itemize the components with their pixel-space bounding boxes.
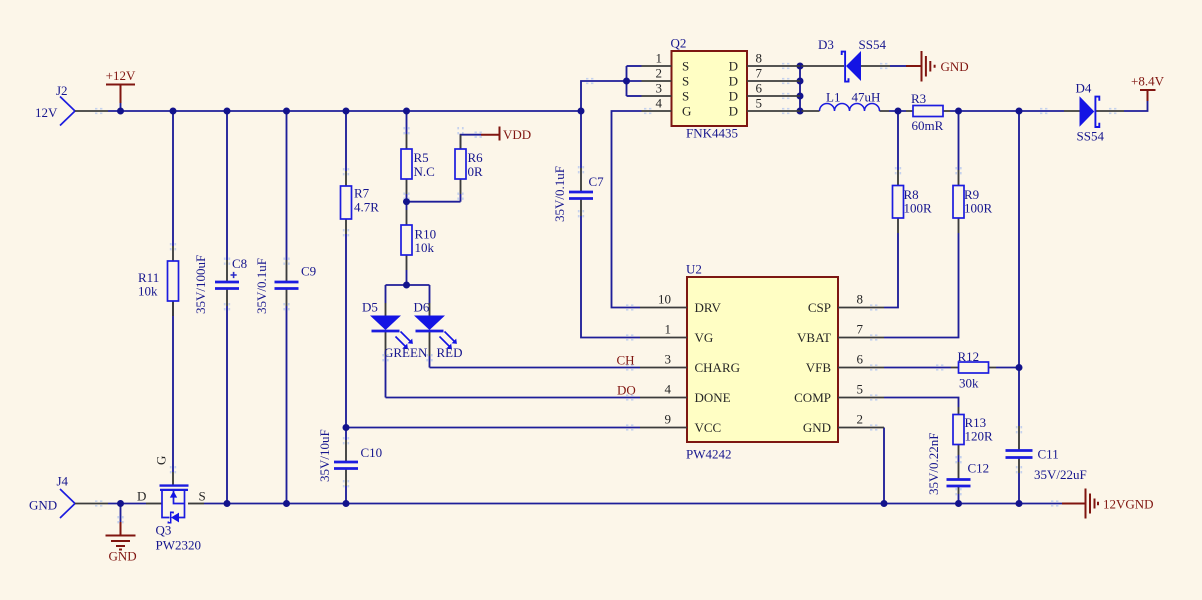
svg-text:5: 5	[756, 96, 763, 111]
junction dot R5 R10 R6	[403, 198, 410, 205]
svg-text:G: G	[154, 456, 169, 465]
svg-text:47uH: 47uH	[852, 90, 881, 105]
wire ground rail main	[204, 503, 1062, 505]
junction dots top rail	[117, 108, 124, 115]
wire Q2 gate to U2 DRV	[612, 111, 642, 308]
svg-text:C7: C7	[589, 174, 605, 189]
pin 2 GND	[838, 427, 884, 429]
wire C9 column	[286, 111, 288, 504]
svg-text:100R: 100R	[904, 201, 933, 216]
resistor R13	[953, 407, 993, 455]
svg-text:60mR: 60mR	[912, 118, 944, 133]
svg-text:8: 8	[756, 51, 763, 66]
svg-text:G: G	[682, 104, 691, 119]
capacitor C12	[926, 433, 989, 495]
svg-text:VCC: VCC	[695, 420, 722, 435]
pin 4 DONE	[640, 397, 687, 399]
pin 2 S	[642, 80, 672, 82]
svg-text:CH: CH	[617, 353, 635, 368]
svg-text:DO: DO	[617, 383, 636, 398]
svg-text:7: 7	[756, 66, 763, 81]
svg-text:SS54: SS54	[859, 37, 887, 52]
resistor R9	[953, 170, 993, 233]
wire LED anode tie bar	[386, 285, 430, 303]
wire R10 to LED tie bar	[406, 270, 408, 285]
diode D3 SS54	[802, 37, 891, 82]
wire Q2 S-pin tie bus	[626, 66, 628, 96]
svg-text:35V/22uF: 35V/22uF	[1034, 467, 1087, 482]
mosfet Q2 FNK4435	[642, 36, 801, 141]
svg-text:U2: U2	[686, 262, 702, 277]
pin 3 CHARG	[640, 367, 687, 369]
svg-text:+12V: +12V	[106, 68, 136, 83]
svg-text:C11: C11	[1038, 447, 1059, 462]
svg-text:2: 2	[656, 66, 663, 81]
op-amp U2 PW4242 charger IC	[640, 262, 884, 462]
svg-text:J2: J2	[56, 83, 68, 98]
wire D4 to +8.4V	[1124, 101, 1148, 111]
wire R13 to C12	[958, 455, 960, 462]
wire DONE row from D5	[386, 397, 641, 399]
power port VDD	[481, 127, 531, 143]
wire R11 column upper	[172, 111, 174, 246]
svg-text:S: S	[682, 89, 689, 104]
wire R6 top to VDD	[461, 135, 482, 149]
LED D5 GREEN	[362, 300, 428, 361]
SECTION: wires	[108, 63, 1148, 523]
power port +12V	[106, 68, 136, 103]
capacitor C10	[317, 429, 382, 486]
wire VFB row to R12	[884, 367, 1019, 369]
wire J4 ground stem	[120, 504, 122, 523]
svg-text:D: D	[729, 104, 738, 119]
wire CHARG row from D6	[430, 367, 641, 369]
resistor R8	[893, 170, 933, 233]
svg-text:7: 7	[857, 322, 864, 337]
svg-text:35V/100uF: 35V/100uF	[193, 255, 208, 314]
svg-text:6: 6	[857, 352, 864, 367]
pin 7 D	[747, 80, 800, 82]
svg-text:VG: VG	[695, 330, 714, 345]
pin 6 VFB	[838, 367, 884, 369]
wire output column to VFB node and C11	[1018, 111, 1020, 504]
wire C12 to ground rail	[958, 494, 960, 504]
junction dot VFB node	[1016, 364, 1023, 371]
junction dots ground rail	[117, 500, 124, 507]
power port GND (top)	[906, 51, 969, 82]
svg-text:J4: J4	[57, 474, 69, 489]
pin 8 D	[747, 65, 800, 67]
svg-text:4: 4	[665, 382, 672, 397]
svg-text:4: 4	[656, 96, 663, 111]
svg-text:35V/10uF: 35V/10uF	[317, 429, 332, 482]
svg-text:R5: R5	[414, 150, 429, 165]
resistor R7	[341, 171, 380, 234]
wire R11 to Q3 gate	[172, 301, 174, 472]
svg-text:35V/0.1uF: 35V/0.1uF	[552, 166, 567, 222]
svg-text:N.C: N.C	[414, 164, 435, 179]
svg-text:PW2320: PW2320	[156, 538, 202, 553]
pin 4 G	[642, 110, 672, 112]
capacitor C9	[254, 258, 316, 314]
svg-text:4.7R: 4.7R	[354, 200, 379, 215]
svg-text:GND: GND	[29, 498, 57, 513]
svg-text:COMP: COMP	[794, 390, 831, 405]
svg-text:CHARG: CHARG	[695, 360, 741, 375]
svg-text:GREEN: GREEN	[384, 345, 428, 360]
svg-text:RED: RED	[437, 345, 463, 360]
pin 9 VCC	[640, 427, 687, 429]
svg-text:0R: 0R	[468, 164, 484, 179]
pin 1 S	[642, 65, 672, 67]
wire R6 bottom lead link	[460, 194, 462, 202]
svg-text:Q3: Q3	[156, 523, 172, 538]
svg-text:Q2: Q2	[671, 36, 687, 51]
wire R3 right to output node	[950, 110, 1064, 112]
svg-text:CSP: CSP	[808, 300, 831, 315]
svg-text:12V: 12V	[35, 105, 58, 120]
transistor Q3 PW2320	[137, 456, 206, 553]
capacitor C11	[1006, 426, 1087, 482]
pin 6 D	[747, 95, 800, 97]
svg-text:VDD: VDD	[503, 127, 531, 142]
power port 12VGND	[1062, 489, 1154, 519]
svg-text:R12: R12	[958, 349, 980, 364]
svg-text:3: 3	[665, 352, 672, 367]
wire jog up from rail to Q2 pin2	[581, 81, 642, 111]
junction dot Q2 pin2 tie	[623, 78, 630, 85]
junction dots Q2 drain bus	[797, 63, 804, 70]
svg-text:1: 1	[665, 322, 672, 337]
wire C7 column lower to VG	[581, 216, 640, 338]
wire R9 column	[884, 111, 959, 338]
wire Q2 pin1 stub link	[627, 65, 642, 67]
wire D3 to GND symbol	[890, 65, 906, 67]
connector J4	[29, 474, 108, 519]
svg-text:DRV: DRV	[695, 300, 722, 315]
wire R7 C10 column	[345, 111, 347, 504]
svg-text:S: S	[199, 489, 206, 504]
wire R8 column	[884, 111, 898, 308]
svg-text:R7: R7	[354, 186, 370, 201]
wire Q2 pin3 stub link	[627, 95, 642, 97]
resistor R11	[138, 246, 179, 316]
svg-text:L1: L1	[826, 90, 840, 105]
svg-text:D: D	[729, 74, 738, 89]
pin 3 S	[642, 95, 672, 97]
wire +12V top rail	[108, 110, 581, 112]
svg-text:12VGND: 12VGND	[1103, 497, 1154, 512]
junction dots output row	[895, 108, 902, 115]
svg-text:120R: 120R	[965, 429, 994, 444]
resistor R10	[401, 210, 436, 270]
svg-text:VBAT: VBAT	[797, 330, 831, 345]
wire U2 GND pin down	[883, 428, 885, 504]
svg-text:8: 8	[857, 292, 864, 307]
svg-text:10: 10	[658, 292, 671, 307]
svg-text:35V/0.1uF: 35V/0.1uF	[254, 258, 269, 314]
pin 5 COMP	[838, 397, 884, 399]
svg-text:D3: D3	[818, 37, 834, 52]
capacitor C7	[552, 166, 604, 222]
svg-text:100R: 100R	[964, 201, 993, 216]
resistor R5	[401, 134, 435, 194]
svg-text:C10: C10	[361, 445, 383, 460]
svg-text:10k: 10k	[415, 240, 435, 255]
wire C7 column upper	[580, 111, 582, 168]
LED D6 RED	[414, 300, 463, 361]
svg-text:10k: 10k	[138, 284, 158, 299]
junction dot LED tie	[403, 282, 410, 289]
pin 1 VG	[640, 337, 687, 339]
svg-text:9: 9	[665, 412, 672, 427]
pin 8 CSP	[838, 307, 884, 309]
resistor R6	[455, 135, 483, 194]
wire ground rail left	[108, 503, 146, 505]
power port +8.4V	[1131, 74, 1165, 102]
svg-text:PW4242: PW4242	[686, 447, 732, 462]
svg-text:S: S	[682, 59, 689, 74]
svg-text:2: 2	[857, 412, 864, 427]
svg-text:30k: 30k	[959, 376, 979, 391]
svg-text:5: 5	[857, 382, 864, 397]
wire Q2 right drain bus	[799, 66, 801, 111]
capacitor C8 (polarized)	[193, 255, 247, 314]
wire L1 to R8 node	[889, 110, 906, 112]
svg-text:GND: GND	[941, 59, 969, 74]
svg-text:D5: D5	[362, 300, 378, 315]
svg-text:DONE: DONE	[695, 390, 731, 405]
svg-text:C9: C9	[301, 264, 316, 279]
svg-text:C8: C8	[232, 256, 247, 271]
svg-text:D: D	[729, 59, 738, 74]
resistor R12	[951, 349, 996, 391]
svg-text:3: 3	[656, 81, 663, 96]
svg-text:C12: C12	[968, 461, 990, 476]
wire VCC row	[346, 427, 640, 429]
wire R5 column upper	[406, 111, 408, 134]
wire endpoint markers (editor artifacts)	[95, 64, 1117, 524]
wire +12V stem lower	[120, 103, 122, 111]
junction dot VCC row	[343, 424, 350, 431]
svg-text:GND: GND	[803, 420, 831, 435]
wire C8 column	[226, 111, 228, 504]
svg-text:35V/0.22nF: 35V/0.22nF	[926, 433, 941, 495]
wire R5 R10 R6 junction	[407, 194, 461, 210]
svg-text:VFB: VFB	[806, 360, 832, 375]
svg-text:6: 6	[756, 81, 763, 96]
svg-text:R3: R3	[911, 91, 926, 106]
svg-text:FNK4435: FNK4435	[686, 126, 738, 141]
svg-text:S: S	[682, 74, 689, 89]
svg-text:+8.4V: +8.4V	[1131, 74, 1165, 89]
pin 5 D	[747, 110, 800, 112]
wire D5 cathode to DONE	[385, 356, 387, 398]
resistor R3	[906, 91, 950, 133]
pin 10 DRV	[640, 307, 687, 309]
svg-text:D6: D6	[414, 300, 430, 315]
diode D4 SS54	[1064, 81, 1124, 144]
inductor L1 47uH	[802, 90, 890, 112]
svg-text:D: D	[729, 89, 738, 104]
pin 7 VBAT	[838, 337, 884, 339]
wire D6 cathode to CHARG	[429, 356, 431, 368]
connector J2	[35, 83, 108, 126]
wire COMP row to R13	[884, 398, 959, 408]
svg-text:1: 1	[656, 51, 663, 66]
svg-text:D4: D4	[1076, 81, 1092, 96]
svg-text:R6: R6	[468, 150, 484, 165]
svg-text:GND: GND	[109, 549, 137, 564]
svg-text:SS54: SS54	[1077, 129, 1105, 144]
power port GND (J4)	[106, 522, 137, 564]
svg-text:D: D	[137, 489, 146, 504]
